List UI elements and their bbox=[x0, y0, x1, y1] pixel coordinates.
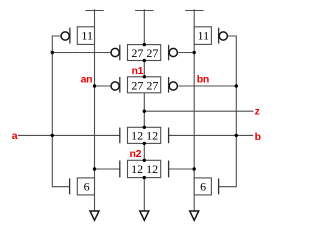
wire row4 left (an to nmos gate) bbox=[95, 168, 120, 170]
junction box3 top bbox=[143, 126, 146, 129]
gate plate box4 right bbox=[168, 161, 170, 178]
vdd bar left bbox=[85, 9, 103, 10]
wire net a trunk left bbox=[52, 36, 69, 187]
junction node z bbox=[143, 110, 146, 113]
transistor box 11 right (pmos) bbox=[194, 27, 211, 45]
svg-text:6: 6 bbox=[84, 179, 90, 193]
junction node b row bbox=[235, 134, 238, 137]
gate plate pmos 11 left bbox=[69, 28, 71, 44]
junction box1 top bbox=[143, 43, 146, 46]
svg-text:b: b bbox=[255, 131, 261, 143]
wire net b trunk right bbox=[219, 36, 237, 187]
junction node bn upper bbox=[193, 51, 196, 54]
svg-text:12 12: 12 12 bbox=[131, 129, 158, 143]
transistor box 12 12 upper (nmos pair) bbox=[128, 127, 161, 143]
gate plate nmos 6 left bbox=[69, 178, 71, 194]
bubble box2 left bbox=[111, 82, 119, 90]
junction node a top bbox=[51, 51, 54, 54]
transistor box 6 right (nmos) bbox=[194, 178, 211, 195]
svg-text:n2: n2 bbox=[130, 148, 142, 160]
junction node b upper bbox=[235, 84, 238, 87]
gate plate box4 left bbox=[119, 161, 121, 178]
vdd bar middle bbox=[135, 9, 153, 10]
gate plate box2 right bbox=[168, 77, 170, 93]
svg-text:12 12: 12 12 bbox=[131, 162, 158, 176]
transistor box 6 left (nmos) bbox=[77, 178, 94, 195]
wire net b row bbox=[169, 134, 254, 136]
wire row4 right (bn to nmos gate) bbox=[169, 168, 195, 170]
junction node an upper bbox=[93, 84, 96, 87]
wire bn trunk bbox=[193, 11, 195, 212]
gate plate box3 right bbox=[168, 128, 170, 144]
transistor box 27 27 lower (pmos pair) bbox=[128, 77, 161, 93]
bubble box1 right bbox=[169, 48, 177, 56]
gate plate pmos 11 right bbox=[218, 28, 220, 44]
svg-text:an: an bbox=[81, 73, 93, 85]
svg-text:a: a bbox=[12, 130, 18, 142]
gate plate nmos 6 right bbox=[218, 178, 220, 194]
junction box4 top n2 bbox=[143, 159, 146, 162]
ground middle bbox=[140, 211, 149, 220]
wire row2 left (net an to gate) bbox=[95, 85, 111, 87]
transistor box 12 12 lower (nmos pair) bbox=[128, 160, 161, 177]
wire an trunk bbox=[94, 11, 96, 212]
bubble box1 left bbox=[111, 48, 119, 56]
junction box1 bottom n1 bbox=[143, 59, 146, 62]
gate plate box1 left bbox=[119, 45, 121, 61]
wire row1 left (net a to gate) bbox=[52, 52, 110, 54]
svg-text:n1: n1 bbox=[132, 65, 144, 77]
svg-text:11: 11 bbox=[81, 29, 93, 43]
gate plate box3 left bbox=[119, 128, 121, 144]
svg-text:bn: bn bbox=[197, 73, 209, 85]
ground left bbox=[90, 211, 99, 220]
wire row1 right (bn to gate) bbox=[178, 52, 194, 54]
bubble pmos 11 left bbox=[61, 32, 69, 40]
transistor box 11 left (pmos) bbox=[77, 27, 94, 45]
wire net a row bbox=[18, 134, 120, 136]
junction box3 bottom n2 bbox=[143, 142, 146, 145]
wire middle trunk bbox=[143, 11, 145, 212]
svg-text:27 27: 27 27 bbox=[131, 46, 158, 60]
ground right bbox=[190, 211, 199, 220]
bubble box2 right bbox=[169, 82, 177, 90]
svg-text:27 27: 27 27 bbox=[131, 78, 158, 92]
junction box4 bottom bbox=[143, 176, 146, 179]
junction node bn lower bbox=[193, 167, 196, 170]
wire net z row bbox=[144, 110, 253, 112]
vdd bar right bbox=[185, 9, 203, 10]
junction node a row bbox=[51, 134, 54, 137]
junction box2 top n1 bbox=[143, 75, 146, 78]
svg-text:6: 6 bbox=[200, 179, 206, 193]
svg-text:z: z bbox=[255, 106, 260, 118]
wire row1 highlight dots bbox=[53, 53, 194, 55]
gate plate box1 right bbox=[168, 45, 170, 61]
bubble pmos 11 right bbox=[219, 32, 227, 40]
svg-text:11: 11 bbox=[198, 29, 210, 43]
wire row2 right (b to gate) bbox=[178, 85, 236, 87]
transistor box 27 27 upper (pmos pair) bbox=[128, 45, 161, 61]
junction node an lower bbox=[93, 167, 96, 170]
gate plate box2 left bbox=[119, 77, 121, 93]
